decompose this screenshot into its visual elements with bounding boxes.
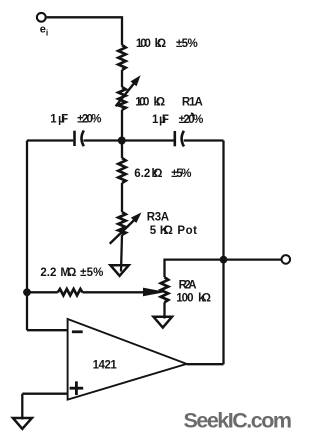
R2A top corner wire — [165, 260, 224, 278]
svg-text:kΩ: kΩ — [198, 292, 211, 304]
ground under R3A — [110, 265, 128, 276]
svg-text:SeekIC.com: SeekIC.com — [184, 409, 293, 433]
svg-text:6.2: 6.2 — [134, 168, 150, 180]
right vertical wire — [222, 141, 224, 365]
svg-text:i: i — [46, 27, 48, 37]
junction node 2.2M left — [23, 288, 31, 296]
cap row left wire — [27, 139, 73, 141]
wire C2 to right corner — [184, 139, 224, 141]
wire junction down to 6.2k — [121, 141, 123, 159]
svg-text:R2A: R2A — [179, 279, 197, 291]
scan artifact above 0 of right cap label — [191, 113, 194, 116]
svg-text:MΩ: MΩ — [60, 267, 76, 279]
op-amp plus sign — [70, 381, 84, 395]
svg-text:kΩ: kΩ — [152, 168, 163, 180]
R1A wiper arrow shaft — [116, 83, 135, 107]
resistor 2.2M zigzag — [58, 289, 83, 295]
svg-text:±5%: ±5% — [80, 267, 103, 279]
capacitor C2 left plate — [174, 131, 177, 146]
wire 2.2M to R2A arrow — [82, 291, 146, 293]
svg-text:Pot: Pot — [177, 225, 197, 237]
potentiometer R2A zigzag — [161, 277, 168, 302]
junction node output — [220, 256, 228, 264]
wire R1 to R1A — [121, 70, 123, 87]
wire junction to C2 — [122, 139, 174, 141]
wire 6.2k to R3A — [121, 183, 123, 212]
op-amp output wire — [187, 363, 224, 365]
wire C1 to junction — [84, 139, 123, 141]
wire R2A to ground — [163, 302, 165, 318]
svg-text:μF: μF — [58, 113, 68, 125]
svg-text:1: 1 — [152, 114, 159, 126]
capacitor C2 curved plate — [182, 131, 184, 147]
svg-text:R1A: R1A — [182, 97, 203, 109]
svg-text:1: 1 — [50, 113, 57, 125]
svg-text:kΩ: kΩ — [155, 38, 167, 50]
op-amp U1 triangle — [68, 319, 187, 400]
svg-text:100: 100 — [135, 97, 149, 109]
potentiometer R1A zigzag — [118, 87, 125, 110]
svg-text:±20%: ±20% — [77, 113, 101, 125]
wire to op-amp inverting input — [27, 329, 68, 331]
svg-text:±5%: ±5% — [171, 168, 191, 180]
svg-text:100: 100 — [136, 38, 151, 50]
ground under R2A — [154, 317, 173, 328]
output wire — [224, 258, 282, 260]
R3A wiper arrow shaft — [110, 220, 135, 244]
svg-text:±5%: ±5% — [176, 38, 198, 50]
svg-text:100: 100 — [176, 292, 193, 304]
svg-text:kΩ: kΩ — [154, 97, 166, 109]
svg-text:μF: μF — [159, 114, 169, 126]
R2A wiper arrowhead — [144, 288, 164, 295]
potentiometer R3A zigzag — [118, 212, 125, 235]
svg-text:R3A: R3A — [147, 211, 169, 223]
op-amp minus sign — [72, 330, 83, 333]
svg-text:1421: 1421 — [93, 359, 118, 371]
resistor 6.2k zigzag — [118, 158, 125, 183]
wire 2.2M left — [27, 291, 58, 293]
R3A arrowhead — [131, 212, 142, 223]
junction node cap row — [118, 137, 126, 145]
resistor R1 100k zigzag — [118, 45, 125, 70]
svg-text:KΩ: KΩ — [160, 225, 173, 237]
left vertical wire — [26, 141, 28, 331]
output terminal — [282, 255, 291, 264]
capacitor C1 left plate — [73, 131, 76, 146]
wire non-inverting input — [22, 394, 68, 420]
R1A arrowhead — [131, 75, 141, 86]
wire R1A to junction — [121, 110, 123, 141]
input terminal e_i — [37, 13, 46, 22]
ground at op-amp + input — [13, 418, 32, 429]
svg-text:2.2: 2.2 — [40, 267, 56, 279]
capacitor C1 curved plate — [82, 131, 84, 147]
wire R3A to ground — [121, 235, 122, 272]
svg-text:5: 5 — [150, 225, 157, 237]
wire input to top corner and down — [47, 17, 122, 45]
svg-text:±20%: ±20% — [179, 114, 204, 126]
